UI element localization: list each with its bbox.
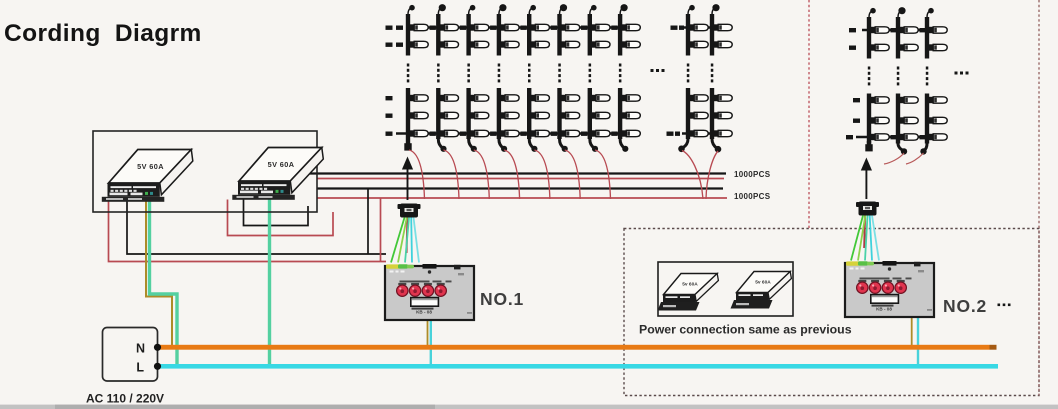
red drop wire from string A3 (474, 150, 490, 199)
wire olive NO.2 to N bus (911, 316, 913, 347)
green wire fan to NO.2 (851, 216, 863, 261)
LED string C3 row2 (925, 94, 929, 144)
svg-text:NO.1: NO.1 (480, 289, 524, 309)
LED string A5 row1 (527, 14, 531, 56)
red wisp from string C3 (906, 153, 924, 164)
red drop wire from string B2 (706, 151, 718, 199)
wire olive NO.1 to N bus (427, 320, 429, 347)
red drop wire from string A6 (565, 150, 581, 199)
mini power supply left (664, 274, 718, 295)
red wisp from string C2 (884, 153, 904, 164)
red drop wire from string A2 (444, 150, 460, 199)
red drop wire from string A4 (504, 150, 519, 199)
LED string B2 row2 (710, 88, 714, 139)
power supply PSU1 5V 60A (109, 150, 192, 184)
LED string A4 row1 (497, 14, 501, 56)
svg-text:N: N (136, 342, 145, 356)
group C row1 left stub (849, 28, 856, 32)
wire teal PSU2 to L bus (268, 197, 271, 367)
LED string C2 row1 (896, 17, 900, 59)
cyan L bus (158, 364, 999, 369)
red dashed boundary left of group C (808, 0, 810, 229)
wire black PSU2 loop (244, 200, 309, 226)
LED string B2 row1 (710, 14, 714, 56)
bus black 1 to strings (308, 172, 726, 174)
arrow up to group A (407, 168, 409, 201)
LED string A1 row2 (406, 88, 410, 139)
LED string A2 row2 (436, 88, 440, 139)
wire red PSU1 to controller NO.1 (109, 202, 387, 262)
controller NO.1 (385, 266, 474, 320)
red pigtail below NO.1 plug (407, 218, 408, 254)
LED string A5 row2 (527, 88, 531, 139)
LED string A2 row1 (436, 14, 440, 56)
power supply PSU2 5V 60A (239, 148, 322, 182)
svg-text:5V 60A: 5V 60A (268, 160, 295, 169)
LED string A6 row2 (557, 88, 561, 139)
LED string C3 row1 (925, 17, 929, 59)
ellipsis between group A and B (651, 69, 654, 72)
power connection inner box (658, 262, 793, 316)
wire teal PSU1 to L bus (150, 197, 178, 366)
LED string A1 row1 (406, 14, 410, 56)
LED string A7 row2 (588, 88, 592, 139)
svg-text:5v 60A: 5v 60A (682, 282, 698, 288)
LED string A3 row2 (466, 88, 470, 139)
LED string A8 row2 (618, 88, 622, 139)
wire cyan NO.2 to L bus (917, 316, 919, 366)
controller NO.2 (845, 263, 934, 317)
green wire fan to NO.1 (391, 218, 405, 263)
bus red 1 to strings (317, 178, 724, 180)
LED string A4 row2 (497, 88, 501, 139)
svg-text:1000PCS: 1000PCS (734, 192, 771, 201)
wire olive PSU1 to N bus (146, 201, 172, 347)
wire black PSU1 to controller NO.1 (127, 202, 386, 255)
bus red 2 to strings (317, 197, 727, 199)
LED string A8 row1 (618, 14, 622, 56)
red pigtail below NO.2 plug (863, 216, 866, 249)
orange N bus (158, 345, 990, 350)
terminal node N (154, 344, 161, 351)
group C row2 bus wire (856, 136, 929, 139)
connector plug above NO.1 (400, 204, 418, 218)
svg-text:1000PCS: 1000PCS (734, 170, 771, 179)
LED string C1 row1 (867, 17, 871, 59)
svg-text:L: L (136, 361, 144, 375)
red drop wire from string A1 (409, 150, 425, 199)
group B row2 bus wire (682, 132, 714, 135)
LED string C1 row2 (867, 94, 871, 144)
ellipsis after NO.2 (998, 304, 1001, 307)
svg-text:NO.2: NO.2 (943, 296, 987, 316)
svg-text:Cording Diagrm: Cording Diagrm (4, 20, 202, 47)
group A row2 left stub (386, 96, 393, 100)
red drop wire from string B1 (682, 151, 703, 200)
svg-text:5v 60A: 5v 60A (755, 280, 771, 286)
LED string A6 row1 (557, 14, 561, 56)
red drop wire from string A5 (534, 150, 550, 199)
LED string B1 row2 (686, 88, 690, 139)
LED string C2 row2 (896, 94, 900, 144)
group A row1 left stub (386, 26, 393, 30)
terminal node L (154, 363, 161, 370)
bottom gray band (0, 405, 1058, 409)
connector plug above NO.2 (859, 202, 877, 216)
wire black junction drop (367, 189, 369, 255)
wire red PSU2 loop (228, 200, 334, 236)
power supply enclosure box (93, 131, 317, 212)
red dashed boundary right of group C (1038, 0, 1040, 396)
svg-text:Power connection same as previ: Power connection same as previous (639, 323, 852, 337)
dashed box lower-right (power connection area) (624, 229, 1039, 396)
svg-text:AC 110 / 220V: AC 110 / 220V (86, 392, 164, 406)
group A row1 bus wire (406, 26, 622, 29)
wire red junction drop (380, 198, 382, 262)
group C row2 left stub (853, 98, 860, 102)
wire cyan NO.1 to L bus (430, 320, 432, 366)
arrow up to group C (865, 169, 867, 200)
ellipsis right of group C (955, 72, 958, 75)
group B row2 left stub (667, 132, 674, 136)
svg-text:5V 60A: 5V 60A (137, 162, 164, 171)
LED string A7 row1 (588, 14, 592, 56)
svg-text:KB - 08: KB - 08 (416, 310, 432, 315)
red drop wire from string A7 (595, 150, 611, 199)
group B row1 left stub (671, 26, 678, 30)
bus black 2 to strings (317, 187, 723, 189)
LED string B1 row1 (686, 14, 690, 56)
LED string A3 row1 (466, 14, 470, 56)
group C row1 bus wire (862, 29, 929, 32)
mini power supply right (737, 272, 791, 293)
AC input box (103, 328, 158, 382)
group B row1 bus wire (684, 26, 714, 29)
group A row2 bus wire (396, 132, 622, 135)
svg-text:KB - 08: KB - 08 (876, 307, 892, 312)
